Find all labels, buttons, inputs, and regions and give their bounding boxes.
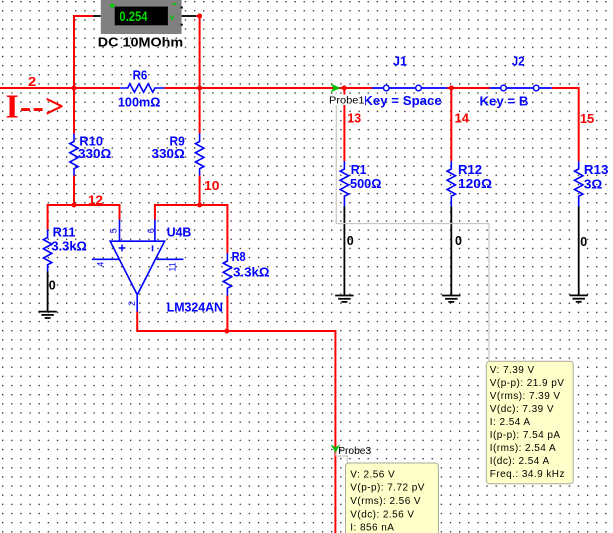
wire: right meter drop to main wire — [196, 16, 199, 88]
resistor R8 — [223, 253, 231, 296]
svg-text:I: 2.54 A: I: 2.54 A — [490, 417, 531, 428]
svg-text:V(rms): 2.56 V: V(rms): 2.56 V — [350, 496, 421, 507]
switch J2 — [490, 85, 552, 91]
svg-text:I(p-p): 7.54 pA: I(p-p): 7.54 pA — [490, 430, 561, 441]
svg-text:V(dc): 7.39 V: V(dc): 7.39 V — [490, 404, 554, 415]
wire: node 12 horizontal, R11 corner to op-amp pin5 — [48, 205, 120, 230]
wire: between J1 and J2 — [447, 87, 490, 89]
svg-text:V(dc): 2.56 V: V(dc): 2.56 V — [350, 509, 414, 520]
Probe1 green arrow — [330, 84, 340, 93]
switch J1 — [372, 85, 447, 91]
wire: node 10 horizontal, op-amp pin6 to R8 — [155, 205, 228, 253]
op-amp pin6 lead — [154, 220, 156, 242]
svg-text:3Ω: 3Ω — [584, 177, 602, 191]
svg-text:R8: R8 — [232, 250, 246, 264]
svg-text:V: 7.39 V: V: 7.39 V — [490, 365, 535, 376]
svg-text:v: v — [170, 12, 175, 22]
resistor R13 — [575, 161, 583, 207]
junction node 12 at R10 bottom — [72, 203, 77, 208]
ground for R1 — [335, 296, 353, 302]
svg-text:V(p-p): 7.72 pV: V(p-p): 7.72 pV — [350, 483, 425, 494]
svg-text:J2: J2 — [512, 55, 525, 69]
ground for R12 — [442, 296, 460, 302]
svg-text:I(dc): 2.54 A: I(dc): 2.54 A — [490, 456, 550, 467]
svg-text:11: 11 — [167, 262, 177, 271]
op-amp U4B triangle — [110, 241, 164, 295]
wire: R12 ground wire — [450, 207, 452, 296]
svg-text:V(p-p): 21.9 pV: V(p-p): 21.9 pV — [490, 378, 565, 389]
svg-text:4: 4 — [96, 262, 106, 267]
gray callout connector for Probe3 — [336, 453, 347, 464]
svg-text:14: 14 — [455, 112, 470, 126]
junction node on main wire at meter left drop — [72, 86, 77, 91]
svg-text:DC 10MOhm: DC 10MOhm — [98, 35, 183, 50]
wire: R1 ground wire — [343, 207, 345, 296]
ground for R11 — [38, 312, 56, 318]
svg-text:100mΩ: 100mΩ — [118, 96, 160, 110]
resistor R12 — [447, 161, 455, 207]
resistor R6 — [120, 84, 164, 92]
wire: R13 ground wire — [578, 207, 580, 296]
svg-text:I-->: I--> — [6, 89, 66, 126]
svg-text:Probe1: Probe1 — [329, 95, 365, 107]
svg-text:5: 5 — [109, 228, 119, 233]
junction node on main wire at R1 drop — [342, 86, 347, 91]
svg-text:3.3kΩ: 3.3kΩ — [51, 240, 87, 254]
svg-text:Freq.: 34.9 kHz: Freq.: 34.9 kHz — [490, 469, 565, 480]
gray callout connector for Probe1 — [336, 92, 489, 361]
svg-text:330Ω: 330Ω — [78, 147, 111, 161]
svg-text:120Ω: 120Ω — [458, 177, 492, 191]
svg-text:U4B: U4B — [167, 226, 192, 240]
wire: from J2 right down to R13 — [552, 88, 579, 161]
wire: R1 top lead from main wire — [343, 88, 345, 161]
yellow measurement box for Probe3 — [346, 463, 439, 533]
wire: R9 top lead from main wire — [199, 88, 201, 134]
svg-text:0: 0 — [49, 279, 56, 293]
wire: main horizontal net 2 from left edge to J1 — [0, 87, 372, 89]
svg-text:6: 6 — [146, 228, 156, 233]
resistor R9 — [195, 134, 203, 176]
resistor R1 — [340, 161, 348, 207]
wire: R9 bottom to node 10 wire — [199, 176, 201, 206]
wire: R8 bottom lead to output net — [226, 296, 228, 332]
wire: left meter drop to main wire — [74, 16, 93, 88]
svg-text:V(rms): 7.39 V: V(rms): 7.39 V — [490, 391, 561, 402]
svg-text:0.254: 0.254 — [119, 8, 147, 24]
svg-text:R12: R12 — [458, 163, 482, 177]
yellow measurement box for Probe1 — [486, 361, 573, 483]
svg-text:R13: R13 — [584, 163, 609, 177]
svg-text:3.3kΩ: 3.3kΩ — [233, 266, 270, 280]
wire: meter left black stub — [93, 15, 101, 17]
junction node at meter right corner — [197, 14, 202, 19]
svg-text:0: 0 — [455, 234, 462, 248]
svg-text:330Ω: 330Ω — [152, 147, 185, 161]
svg-text:0: 0 — [347, 234, 354, 248]
svg-text:R1: R1 — [351, 163, 367, 177]
svg-text:15: 15 — [580, 112, 594, 126]
svg-text:J1: J1 — [393, 55, 407, 69]
svg-text:500Ω: 500Ω — [350, 177, 382, 191]
svg-text:0: 0 — [580, 235, 587, 249]
svg-text:LM324AN: LM324AN — [167, 300, 223, 314]
svg-text:2: 2 — [127, 301, 137, 306]
svg-text:Key = B: Key = B — [480, 94, 529, 108]
resistor R11 — [43, 230, 51, 272]
ground for R13 — [570, 295, 588, 301]
svg-text:13: 13 — [347, 112, 361, 126]
svg-text:V: 2.56 V: V: 2.56 V — [350, 469, 395, 480]
wire: R10 bottom to node 12 wire — [73, 176, 75, 206]
op-amp minus input marker — [152, 246, 154, 252]
wire: R11 ground wire — [47, 272, 49, 312]
Probe1 label — [329, 95, 366, 107]
svg-text:I: 856 nA: I: 856 nA — [350, 523, 394, 533]
svg-text:2: 2 — [28, 75, 36, 89]
svg-text:R11: R11 — [53, 226, 76, 240]
resistor R10 — [70, 134, 78, 176]
wire: meter right black stub — [182, 15, 197, 17]
svg-text:I(rms): 2.54 A: I(rms): 2.54 A — [490, 443, 556, 454]
op-amp plus input marker — [119, 245, 126, 252]
op-amp pin5 lead — [119, 220, 121, 242]
junction node at R8 bottom on output net — [224, 329, 229, 334]
junction node on main wire at R12 drop — [449, 86, 454, 91]
op-amp pin4 lead — [92, 258, 119, 260]
op-amp output lead pin2 — [136, 295, 138, 312]
op-amp pin11 lead — [157, 258, 184, 260]
svg-text:12: 12 — [88, 193, 103, 207]
svg-text:Key = Space: Key = Space — [363, 94, 442, 108]
junction node on main wire at R9 drop — [197, 86, 202, 91]
wire: R12 top lead from main wire — [450, 88, 452, 161]
wire: op-amp output to bottom net and down past Probe3 — [137, 312, 335, 533]
svg-text:Probe3: Probe3 — [338, 445, 371, 457]
svg-text:10: 10 — [204, 179, 220, 193]
svg-text:R6: R6 — [133, 69, 148, 83]
junction node 10 at R9 bottom — [197, 203, 202, 208]
Probe3 green arrow — [331, 444, 341, 452]
multimeter XMM1 body — [101, 0, 183, 34]
wire: R10 top lead from main wire — [73, 88, 75, 134]
